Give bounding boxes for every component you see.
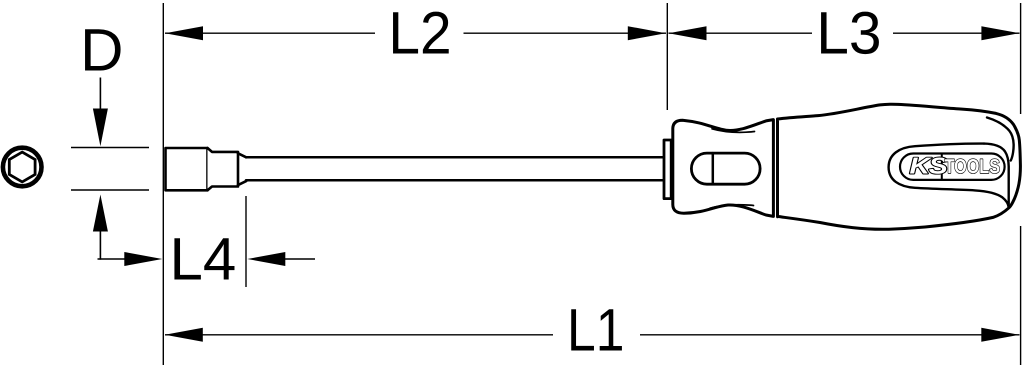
extension line right (x=1020.6) — [1020, 3, 1022, 114]
socket head — [166, 148, 208, 190]
svg-text:D: D — [80, 16, 123, 83]
hex socket icon — [3, 148, 42, 187]
svg-text:TOOLS: TOOLS — [945, 156, 1001, 178]
bolster inner contour bottom — [710, 205, 754, 208]
shaft — [246, 156, 664, 159]
slot stadium on bolster — [691, 153, 760, 184]
main handle body — [778, 104, 1021, 229]
junction second line — [776, 119, 779, 217]
svg-text:L3: L3 — [816, 0, 881, 66]
bolster inner contour top — [712, 129, 755, 133]
svg-text:L2: L2 — [388, 0, 451, 67]
chamfer to shaft — [238, 153, 246, 185]
collar — [664, 140, 671, 199]
bolster (front grip) — [673, 120, 774, 217]
step + mid section — [208, 148, 239, 190]
TOOL DRAWING — [166, 104, 1021, 229]
label D with leader arrows — [80, 16, 123, 259]
svg-text:L4: L4 — [170, 226, 237, 293]
plate (crease outline around logo) — [889, 144, 1009, 208]
dimension L1 — [165, 297, 1020, 364]
svg-text:KS: KS — [910, 152, 949, 178]
logo stadium — [900, 154, 1005, 180]
extension line mid (x=667.3) — [666, 3, 668, 110]
extension line left (x=163.3) — [162, 3, 164, 365]
dimension L3 — [669, 0, 1020, 66]
extension line L4 (x=246) — [245, 196, 247, 287]
D extension lines — [71, 147, 149, 149]
inner corner contour top-right — [987, 118, 1014, 161]
svg-text:L1: L1 — [567, 297, 624, 364]
dimension L2 — [165, 0, 666, 67]
dimension L4 (arrows outside) — [98, 226, 316, 293]
